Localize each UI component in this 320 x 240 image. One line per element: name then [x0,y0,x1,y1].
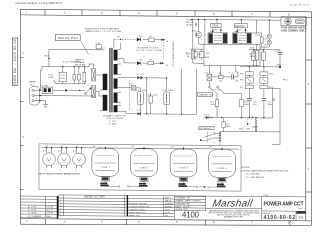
svg-text:6: 6 [213,220,215,224]
svg-text:C.1: C.1 [230,73,234,75]
svg-text:DRAWN MARK DOBSON: DRAWN MARK DOBSON [176,200,202,203]
svg-text:HEATER FUSES: HEATER FUSES [138,46,160,49]
svg-text:2: 2 [22,135,24,139]
svg-text:9: 9 [75,170,77,172]
svg-text:13-08-98 13:17: 13-08-98 13:17 [290,5,311,7]
svg-text:PRINTED CIRCUIT: PRINTED CIRCUIT [129,204,148,206]
svg-text:MAINS: MAINS [29,80,36,83]
svg-text:5: 5 [176,12,178,16]
svg-text:4k60: 4k60 [226,126,231,128]
svg-text:4: 4 [138,220,140,224]
svg-text:POWER AMP CCT: POWER AMP CCT [264,201,304,207]
svg-text:A MEMBER OF H.H. GRP: A MEMBER OF H.H. GRP [224,215,244,218]
svg-text:RESISTORS R 1/2W 5% MIN RATE: RESISTORS R 1/2W 5% MIN RATE [85,28,120,31]
svg-text:8: 8 [288,221,290,225]
svg-text:PANEL SET: PANEL SET [129,214,141,217]
svg-text:4100: 4100 [182,211,200,220]
svg-text:COMPANY JM: COMPANY JM [176,197,191,200]
svg-text:R.10: R.10 [269,87,274,89]
svg-text:1: 1 [308,82,310,86]
svg-text:P1: P1 [118,37,121,39]
svg-text:4 - 234V: 4 - 234V [109,124,117,126]
svg-text:UP.1: UP.1 [269,74,274,76]
svg-text:8: 8 [288,12,290,16]
svg-text:VOLTAGE: VOLTAGE [75,61,85,64]
svg-text:RE-CON: RE-CON [235,26,244,28]
svg-text:2 - 117V: 2 - 117V [109,121,117,123]
svg-text:B 10.97: B 10.97 [28,210,37,212]
svg-text:DOTTED LINES DENOTE WIRES OFF: DOTTED LINES DENOTE WIRES OFF THE PCB: [242,170,289,172]
svg-text:4100 COMBO ONLY: 4100 COMBO ONLY [281,28,307,32]
svg-text:7: 7 [251,12,253,16]
svg-text:100u: 100u [168,90,173,92]
svg-text:PR.1: PR.1 [240,79,245,81]
svg-text:MAINS PSU: MAINS PSU [58,36,78,40]
svg-text:21.1.97: 21.1.97 [46,210,54,212]
svg-text:13.8.98: 13.8.98 [46,213,54,215]
svg-text:PR.2: PR.2 [283,80,288,82]
svg-text:24.7k: 24.7k [260,48,266,50]
svg-text:ISSUE: ISSUE [297,212,303,214]
svg-text:CCT. NUMBER: CCT. NUMBER [27,216,42,218]
svg-text:SEL PLATE: SEL PLATE [75,64,86,67]
svg-text:R.2: R.2 [198,54,202,56]
svg-text:DEAD: DEAD [212,25,219,28]
svg-text:V.6: V.6 [171,146,175,148]
svg-text:4: 4 [214,143,216,145]
svg-text:VALVE HEATER WIRING ARRANGEMEN: VALVE HEATER WIRING ARRANGEMENT [39,172,82,175]
svg-text:R.31: R.31 [250,48,255,50]
svg-text:DATE 14.8.98: DATE 14.8.98 [176,205,191,208]
svg-text:+470v: +470v [276,64,283,66]
svg-text:O/P SELECT: O/P SELECT [199,128,212,130]
svg-text:marshall 4100pwr 14 Aug 1998: marshall 4100pwr 14 Aug 1998 13:17 [16,2,64,5]
svg-text:4100-60-02: 4100-60-02 [264,215,296,221]
svg-text:VALVE SET EL34: VALVE SET EL34 [129,211,146,214]
svg-text:2: 2 [308,167,310,171]
svg-text:1: 1 [26,219,28,223]
svg-text:A: A [167,40,169,43]
svg-text:TRANSFORMER SET: TRANSFORMER SET [129,206,150,209]
svg-text:TITLE: TITLE [263,195,269,197]
svg-text:Marshall: Marshall [212,198,254,209]
svg-text:V.7: V.7 [209,147,213,149]
svg-text:2.2k: 2.2k [204,73,209,75]
svg-text:7: 7 [251,220,253,224]
svg-text:TUBE 4: TUBE 4 [217,168,227,170]
svg-text:CAPACITORS C 1. 5. 2.1-1 50 V: CAPACITORS C 1. 5. 2.1-1 50 V MIN [85,30,121,33]
svg-text:1k20: 1k20 [205,57,210,59]
svg-text:ISS 14: ISS 14 [165,201,172,203]
svg-text:R.14: R.14 [256,35,261,37]
svg-text:B: B [166,65,168,67]
svg-text:V.4: V.4 [93,146,97,148]
svg-text:100u: 100u [142,90,147,92]
svg-text:TR.1: TR.1 [192,31,197,33]
svg-text:60 W: 60 W [165,212,170,214]
svg-text:2: 2 [64,11,66,15]
svg-text:220k: 220k [153,94,158,96]
svg-text:SHT 1: SHT 1 [165,198,172,200]
svg-text:MODEL: MODEL [165,207,173,209]
svg-text:a: a [243,127,245,129]
svg-text:0.1: 0.1 [102,47,106,49]
svg-text:+35: +35 [235,80,239,82]
svg-text:R.8: R.8 [240,73,244,75]
svg-text:F.6: F.6 [150,36,154,38]
svg-text:22u: 22u [253,104,257,106]
svg-text:6: 6 [213,12,215,16]
svg-text:PL.1: PL.1 [30,85,35,87]
svg-text:LP.2: LP.2 [264,44,269,46]
svg-text:2: 2 [64,219,66,223]
svg-text:TUBE 3: TUBE 3 [179,168,189,170]
svg-text:3: 3 [101,220,103,224]
svg-text:LINE VOLTAGE: LINE VOLTAGE [106,117,124,120]
svg-text:D.5: D.5 [139,60,143,62]
svg-text:F.1 T2AL: F.1 T2AL [40,84,49,87]
svg-text:V.3: V.3 [73,151,77,153]
svg-text:1: 1 [22,51,24,55]
svg-text:SW.1: SW.1 [44,56,50,58]
svg-text:NOTES:: NOTES: [242,167,251,169]
svg-text:A 07.96: A 07.96 [28,206,37,209]
svg-text:C 05.98: C 05.98 [28,213,37,215]
svg-text:CHECKED SB: CHECKED SB [176,203,191,205]
svg-text:DWG No :- 4100-60-02: DWG No :- 4100-60-02 [13,39,17,85]
svg-text:10k: 10k [187,56,191,58]
svg-text:4k60: 4k60 [244,104,249,106]
svg-text:470R: 470R [49,77,54,79]
svg-text:10k: 10k [219,80,223,82]
svg-text:JCM900: JCM900 [165,204,174,206]
svg-text:PRIMARY LINKS FOR: PRIMARY LINKS FOR [103,114,127,117]
svg-text:14.8.98: 14.8.98 [46,207,54,209]
svg-text:TP.02: TP.02 [239,128,245,130]
svg-text:D.2: D.2 [141,74,145,76]
svg-text:CV - 5455 REF. EX.: CV - 5455 REF. EX. [246,177,266,179]
svg-text:LP.1: LP.1 [264,38,269,40]
svg-text:1: 1 [26,10,28,14]
svg-text:CHASSIS ISSUE: CHASSIS ISSUE [129,208,146,211]
svg-text:V.1: V.1 [43,150,47,152]
svg-text:1 of 2: 1 of 2 [298,208,304,210]
svg-text:MAINS TO: MAINS TO [75,58,85,61]
svg-text:TUBE 2: TUBE 2 [139,167,149,169]
svg-text:V1-V7 HEATER WIRING: V1-V7 HEATER WIRING [172,41,175,67]
svg-text:V.2: V.2 [58,150,62,152]
svg-text:470R: 470R [250,56,255,58]
svg-text:CC - 5405 MX.: CC - 5405 MX. [246,174,261,176]
svg-text:FS 3N 250V 6.3MM: FS 3N 250V 6.3MM [137,50,162,52]
svg-text:LIMITED CCT DATA: LIMITED CCT DATA [84,196,105,199]
svg-text:d: d [209,187,211,189]
svg-text:100n: 100n [60,78,65,80]
svg-text:V.5: V.5 [131,146,135,148]
svg-text:100u: 100u [268,104,273,106]
svg-text:9: 9 [60,170,62,172]
svg-text:3: 3 [101,11,103,15]
svg-text:D.6: D.6 [139,36,143,38]
svg-text:32A: 32A [246,127,250,130]
svg-text:5: 5 [176,220,178,224]
svg-text:14: 14 [299,216,303,220]
svg-text:STANDBY SW: STANDBY SW [198,94,213,97]
svg-text:4k60: 4k60 [211,104,216,106]
svg-text:TUBE 1: TUBE 1 [101,167,111,169]
svg-text:9: 9 [45,170,47,172]
svg-text:R.9: R.9 [240,87,244,89]
svg-text:47k: 47k [206,53,210,55]
svg-text:DELAY: DELAY [186,23,193,26]
svg-text:4: 4 [138,11,140,15]
